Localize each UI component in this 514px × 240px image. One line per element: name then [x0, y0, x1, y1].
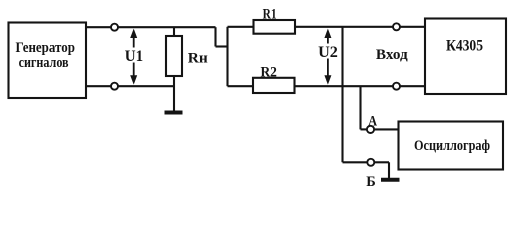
resistor R2 body: [253, 78, 295, 93]
terminal on generator bottom output: [111, 83, 118, 90]
wire R1 right lead to K4305: [295, 26, 425, 28]
wire right junction vertical (U2 node to Б): [341, 27, 343, 163]
voltage arrow U1 (double-headed, broken by label): [130, 29, 137, 85]
wire Б lead right of terminal: [375, 161, 390, 163]
voltage arrow U2 (double-headed, broken by label): [324, 29, 331, 85]
wire А lead into oscilloscope: [375, 128, 400, 130]
wire А jog to terminal: [361, 128, 367, 130]
box: signal generator (Генератор сигналов): [9, 23, 87, 99]
terminal at K4305 input bottom (Вход): [393, 83, 400, 90]
svg-text:U1: U1: [125, 48, 143, 65]
wire R2 right lead to K4305: [295, 85, 426, 87]
svg-text:К4305: К4305: [446, 38, 483, 55]
box: oscilloscope (Осциллограф): [399, 122, 504, 170]
terminal at K4305 input top (Вход): [393, 23, 400, 30]
svg-text:сигналов: сигналов: [19, 55, 69, 71]
ground symbol under Rн: [165, 111, 183, 115]
box: K4305 meter: [425, 19, 506, 95]
svg-text:Rн: Rн: [188, 50, 208, 66]
wire А tap vertical: [359, 86, 361, 129]
terminal on generator top output: [111, 24, 118, 31]
svg-text:Б: Б: [366, 174, 376, 190]
wire Б lead left of terminal: [343, 161, 368, 163]
svg-text:U2: U2: [318, 44, 338, 61]
wire R1 left lead: [228, 26, 254, 28]
wire bottom rail: generator to Rн node: [86, 85, 174, 87]
wire corner vertical: [214, 27, 216, 46]
wire top rail: generator to corner: [86, 26, 216, 28]
svg-text:R2: R2: [260, 64, 277, 80]
terminal А: [367, 126, 374, 133]
resistor Rн body: [166, 36, 182, 76]
wire jog horizontal: [216, 45, 228, 47]
wire Rн top stub: [173, 27, 175, 36]
terminal Б: [367, 159, 374, 166]
svg-text:Генератор: Генератор: [15, 40, 75, 56]
wire Rн bottom stub to ground: [173, 76, 175, 112]
wire split vertical (R1/R2 left junction): [226, 27, 228, 86]
svg-text:Вход: Вход: [376, 47, 408, 63]
svg-text:R1: R1: [263, 7, 277, 23]
svg-text:А: А: [368, 114, 377, 130]
svg-text:Осциллограф: Осциллограф: [414, 138, 490, 154]
wire R2 left lead: [228, 85, 254, 87]
resistor R1 body: [254, 20, 296, 34]
ground symbol under Б: [381, 178, 400, 182]
wire Б ground stub: [388, 162, 390, 178]
